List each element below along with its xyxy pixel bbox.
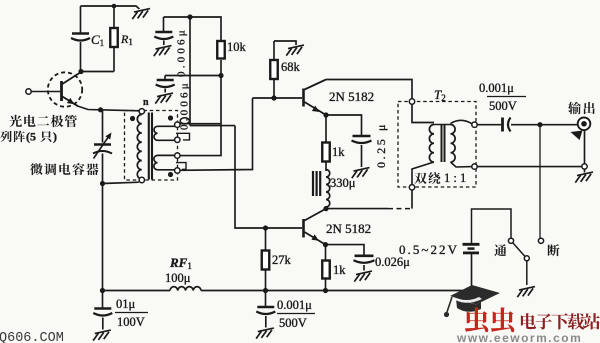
ground top-left <box>134 9 150 13</box>
wire: C1-R1 bottom link <box>81 71 115 73</box>
battery 0.5-22V <box>472 209 512 243</box>
wire: T2 bottom tap to jack ground <box>477 166 582 168</box>
wire curl at tap1 <box>180 118 189 124</box>
svg-text:n: n <box>143 97 149 108</box>
watermark: site name (dark red) <box>521 313 536 329</box>
wire: left column down to bus <box>102 184 104 291</box>
resistor 68k <box>273 41 275 60</box>
ground under output <box>584 169 586 173</box>
switch arm <box>513 243 525 257</box>
node: Q1 base junction <box>271 95 276 100</box>
svg-text:1k: 1k <box>332 145 345 159</box>
label bifilar 1:1 (Chinese) <box>414 173 426 185</box>
T1 phase dot sec upper <box>168 115 173 120</box>
T1 primary winding <box>139 109 144 114</box>
wire: emitter to 0.25u <box>326 115 362 135</box>
capacitor 0.006u #2 <box>164 76 166 80</box>
svg-text:100μ: 100μ <box>165 271 191 285</box>
node: Q2 collector junction <box>323 206 328 211</box>
T1 secondary lower winding <box>154 155 177 169</box>
capacitor 0.026u <box>355 255 374 258</box>
phototransistor Q0 (dashed envelope) <box>48 72 82 106</box>
wire: collector node to T2 bottom <box>326 208 388 210</box>
svg-text:500V: 500V <box>489 99 517 113</box>
wire: to T1 primary bottom <box>103 182 139 183</box>
bottom bus wire <box>103 290 171 292</box>
wire: x221 down to tap3 <box>180 76 221 156</box>
resistor R1 <box>113 6 115 28</box>
svg-text:0.001μ: 0.001μ <box>277 298 312 312</box>
svg-text:0.5~22V: 0.5~22V <box>399 242 458 257</box>
capacitor C1 <box>80 6 82 33</box>
wire: off-branch <box>539 125 541 239</box>
svg-text:0.026μ: 0.026μ <box>375 255 410 269</box>
label output (Chinese) <box>568 102 581 115</box>
node <box>98 107 103 112</box>
svg-text:1k: 1k <box>333 263 346 277</box>
svg-text:500V: 500V <box>279 316 307 330</box>
wire: tap4 to Q1 base column <box>180 98 253 170</box>
svg-text:0.006μ: 0.006μ <box>176 27 188 77</box>
capacitor 0.001u/500V (bottom) <box>265 291 267 307</box>
svg-text:2N 5182: 2N 5182 <box>326 221 371 236</box>
node <box>218 73 223 78</box>
T1 secondary upper winding <box>154 126 176 140</box>
transistor Q1 2N5182 <box>302 89 305 107</box>
svg-text:2N 5182: 2N 5182 <box>329 89 374 104</box>
resistor 1k (Q2 emitter) <box>325 245 327 261</box>
label: photo-diode array (Chinese) <box>9 115 22 127</box>
resistor 1k (Q1 emitter) <box>325 115 327 143</box>
label on (Chinese) <box>494 244 506 256</box>
T1 core <box>148 113 150 180</box>
wire: emitter to T1 <box>78 106 101 110</box>
wire: x235 down to Q2 base <box>235 126 302 228</box>
svg-text:): ) <box>53 130 57 144</box>
node: 27k top <box>263 225 268 230</box>
svg-text:www.eeworm.com: www.eeworm.com <box>456 331 582 343</box>
svg-text:0.001μ: 0.001μ <box>479 81 514 95</box>
inductor RF1 100u <box>170 287 201 291</box>
T2 winding <box>412 104 434 123</box>
label: trimmer capacitor (Chinese) <box>30 163 42 175</box>
node: bus junctions <box>263 288 268 293</box>
wire: y125.6 horizontal to x235 <box>190 125 235 127</box>
node: output junction <box>537 122 542 127</box>
watermark: graduation cap logo <box>444 285 500 317</box>
node: Q2 emitter junction <box>323 242 328 247</box>
transformer T1 dashed box <box>125 111 178 181</box>
resistor 10k <box>217 41 225 59</box>
watermark: chong chong (red) <box>465 307 514 332</box>
svg-text:01μ: 01μ <box>116 297 136 311</box>
T2 top terminal <box>409 99 414 104</box>
T1 phase dot primary <box>130 116 135 121</box>
inductor 330u with core <box>312 171 314 196</box>
label off (Chinese) <box>548 244 560 256</box>
wire: Q1 collector to T2 <box>326 80 412 100</box>
T1 tap terminals <box>175 122 180 127</box>
svg-text:68k: 68k <box>281 60 301 74</box>
node <box>187 14 192 19</box>
wire: mid junction horizontal (cap2 to 10k bottom) <box>165 75 221 77</box>
transformer T2 dashed box <box>398 102 476 188</box>
wire: top-left supply rail <box>81 6 140 9</box>
wire: top rail 2 <box>164 17 222 41</box>
node: collector junction <box>78 69 83 74</box>
transistor Q2 2N5182 <box>302 219 305 238</box>
wire: Q1 base <box>253 97 303 99</box>
trimmer capacitor (variable) <box>102 110 104 143</box>
ground above 68k <box>274 41 296 45</box>
svg-text:1 : 1: 1 : 1 <box>444 171 466 185</box>
svg-text:10k: 10k <box>227 40 247 54</box>
svg-text:(5: (5 <box>26 130 36 144</box>
svg-text:0.25 μ: 0.25 μ <box>374 122 388 168</box>
resistor 27k <box>265 228 267 251</box>
T2 top-right exit <box>451 120 473 123</box>
wire: tap1 to 10k column <box>180 123 221 125</box>
node: C1/R1 top junction <box>112 4 117 9</box>
svg-text:27k: 27k <box>272 253 292 267</box>
T1 phase dot sec lower <box>168 172 173 177</box>
svg-text:100V: 100V <box>117 315 145 329</box>
capacitor 0.001u coupling <box>477 124 501 126</box>
wire: jack sleeve down <box>584 131 586 164</box>
svg-text:Q606.COM: Q606.COM <box>0 331 64 343</box>
output jack <box>578 118 591 131</box>
svg-text:330μ: 330μ <box>330 176 356 190</box>
wire: vertical x190 top rail to y125.6 <box>189 17 191 126</box>
capacitor 01u/100V <box>102 291 104 309</box>
node: Q1 emitter junction <box>323 112 328 117</box>
capacitor 0.006u #1 <box>163 17 165 32</box>
capacitor 0.25u <box>353 135 371 138</box>
wire: emitter to 0.026u <box>326 245 365 255</box>
T2 bottom exits <box>412 162 434 185</box>
node: trimmer bottom junction <box>100 181 105 186</box>
svg-text:0.006μ: 0.006μ <box>179 80 191 130</box>
